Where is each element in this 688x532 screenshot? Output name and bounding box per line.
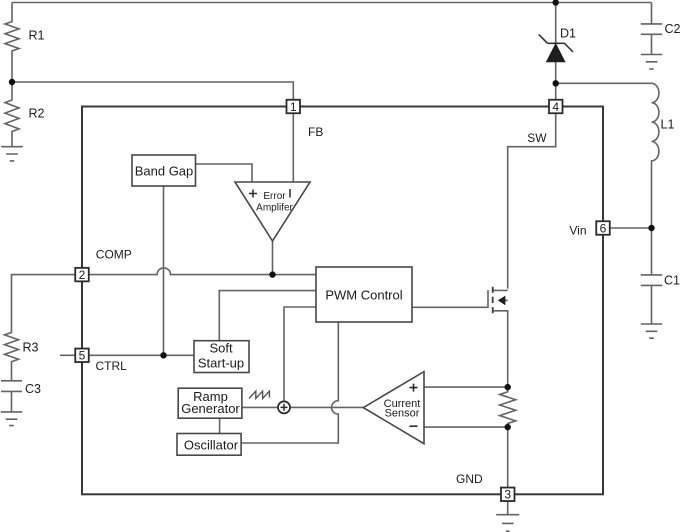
- svg-text:2: 2: [79, 268, 86, 282]
- svg-text:R2: R2: [29, 107, 45, 121]
- svg-text:SW: SW: [527, 131, 547, 145]
- svg-text:Soft: Soft: [209, 341, 233, 356]
- svg-text:L1: L1: [661, 118, 675, 132]
- svg-text:R3: R3: [23, 341, 39, 355]
- svg-text:FB: FB: [308, 125, 323, 139]
- svg-text:R1: R1: [29, 29, 45, 43]
- svg-text:PWM Control: PWM Control: [325, 287, 402, 302]
- svg-text:Error: Error: [263, 191, 286, 202]
- svg-text:3: 3: [504, 488, 511, 502]
- svg-text:Start-up: Start-up: [198, 356, 244, 371]
- svg-text:Band Gap: Band Gap: [135, 163, 194, 178]
- svg-text:5: 5: [79, 349, 86, 363]
- svg-text:C1: C1: [664, 274, 680, 288]
- svg-text:GND: GND: [456, 472, 483, 486]
- svg-text:Amplifer: Amplifer: [256, 203, 293, 214]
- svg-text:Vin: Vin: [569, 224, 586, 238]
- svg-text:6: 6: [600, 221, 607, 235]
- svg-text:1: 1: [290, 100, 297, 114]
- svg-text:C2: C2: [665, 22, 681, 36]
- svg-text:4: 4: [552, 100, 559, 114]
- svg-text:Oscillator: Oscillator: [184, 437, 239, 452]
- svg-text:CTRL: CTRL: [96, 359, 128, 373]
- svg-text:Generator: Generator: [181, 401, 240, 416]
- svg-text:COMP: COMP: [96, 248, 132, 262]
- svg-text:C3: C3: [25, 382, 41, 396]
- svg-text:Sensor: Sensor: [385, 408, 420, 420]
- svg-text:D1: D1: [560, 27, 576, 41]
